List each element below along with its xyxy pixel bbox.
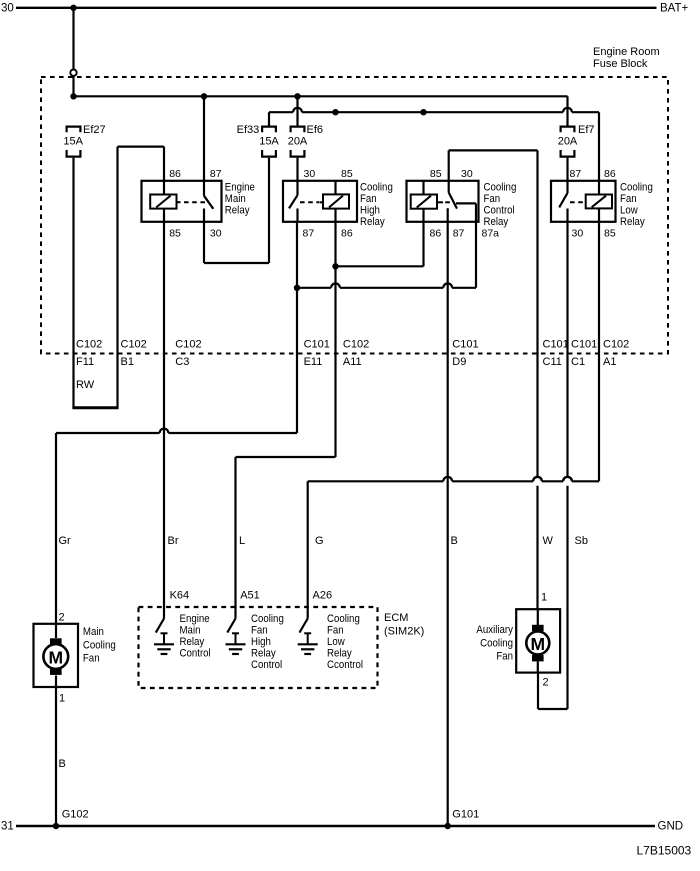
svg-text:Ef6: Ef6 <box>307 124 324 136</box>
wire hop C11 drop over A1 cross wire <box>533 477 542 481</box>
wire bus corner down to fuse Ef7 <box>566 96 568 125</box>
wire aux fan internal bottom <box>537 661 539 672</box>
junction bus to engine main relay 87 <box>201 93 207 99</box>
relay K1 coil wire to pin 86 <box>163 181 165 195</box>
relay K4 switch stub to pin 30 <box>566 209 568 222</box>
wire engine main relay pin 87 feed <box>203 96 205 181</box>
relay K3 contact 87a down to pin <box>475 203 477 221</box>
svg-text:GND: GND <box>658 820 684 832</box>
wire down into engine main relay pin 86 <box>163 147 165 182</box>
relay K3 coil lead <box>437 201 443 203</box>
svg-text:30: 30 <box>304 168 316 180</box>
wire hop 87a tie over D9 wire <box>443 283 452 287</box>
svg-text:87a: 87a <box>482 228 500 240</box>
relay K2 coil wire to pin 85 <box>334 181 336 195</box>
wire secondary bus from Ef33 to relay coils (y=112) <box>269 111 293 113</box>
fuse Ef6 20A <box>291 127 305 133</box>
relay K3 coil wire to pin 86 <box>422 209 424 222</box>
wire fuse Ef6 feed <box>296 96 298 125</box>
wire Ef33 output down <box>268 158 270 263</box>
wire hop secondary bus over Ef7 feed <box>563 108 572 112</box>
ECM driver switch A51 blade <box>227 619 235 633</box>
wire bullet to internal bus <box>72 76 74 96</box>
svg-text:15A: 15A <box>63 136 83 148</box>
svg-text:87: 87 <box>210 168 222 180</box>
relay K1 switch pivot wire from pin 87 <box>203 181 205 196</box>
relay K2 coil lead <box>320 201 324 203</box>
svg-text:85: 85 <box>430 168 442 180</box>
svg-text:BAT+: BAT+ <box>660 3 689 15</box>
wire jog right to C101 C11 drop <box>449 149 538 151</box>
wire hop A1 cross over D9 <box>443 477 452 481</box>
svg-text:85: 85 <box>169 228 181 240</box>
relay K4 switch pivot wire from pin 87 <box>566 181 568 193</box>
svg-text:M: M <box>531 634 546 654</box>
ground symbol at A51 driver <box>232 632 239 634</box>
svg-text:Ef7: Ef7 <box>578 124 595 136</box>
svg-text:CoolingFanHighRelay: CoolingFanHighRelay <box>360 182 393 228</box>
junction bus at Ef27 feed <box>70 93 76 99</box>
wire G down to ECM A26 <box>307 481 309 618</box>
wire internal bus B+ (y=96) <box>74 95 568 97</box>
svg-text:Sb: Sb <box>575 535 588 547</box>
relay K4 coil <box>586 195 612 209</box>
relay K3 Cooling Fan Control Relay box <box>407 181 479 222</box>
relay K2 switch pivot wire from pin 30 <box>296 181 298 195</box>
wire B1 to engine main relay coil 86 <box>118 146 165 148</box>
wire K2 pin 86 down <box>334 222 336 457</box>
wire Ef27 output down to C102 F11 (RW wire) <box>72 158 74 408</box>
wire 87a tie up to K3 pin 87a <box>475 222 477 288</box>
svg-text:1: 1 <box>541 591 547 603</box>
relay K2 coil <box>323 194 349 208</box>
wire A11 corner left <box>236 456 336 458</box>
svg-text:MainCoolingFan: MainCoolingFan <box>83 627 116 665</box>
wire L down to ECM A51 <box>234 457 236 619</box>
svg-text:Br: Br <box>168 535 179 547</box>
relay K1 Engine Main Relay box <box>142 181 222 222</box>
wire Ef33 output jog left <box>204 262 269 264</box>
relay K3 coil wire to pin 85 <box>422 181 424 195</box>
wire battery feed down to fuse block <box>72 8 74 69</box>
svg-text:86: 86 <box>341 228 353 240</box>
node connector bullet at fuse block boundary <box>70 70 76 76</box>
fuse Ef7 20A <box>561 127 575 133</box>
svg-text:C102B1: C102B1 <box>121 339 147 369</box>
ground symbol at K64 driver <box>161 632 168 634</box>
junction top bus to fuse block feed <box>70 5 76 11</box>
relay K2 coil wire to pin 86 <box>334 209 336 222</box>
svg-text:L7B15003: L7B15003 <box>637 844 692 858</box>
svg-text:A51: A51 <box>240 589 260 601</box>
relay K2 Cooling Fan High Relay box <box>283 181 357 222</box>
junction secondary bus to cooling fan control relay coil 85 <box>420 109 426 115</box>
svg-text:30: 30 <box>210 228 222 240</box>
svg-text:AuxiliaryCoolingFan: AuxiliaryCoolingFan <box>476 625 513 663</box>
svg-text:EngineMainRelayControl: EngineMainRelayControl <box>180 614 211 660</box>
wire up to engine main relay pin 30 <box>203 222 205 263</box>
wire K1 pin 85 down through C102 C3 to ECM K64 (Br) <box>163 222 165 619</box>
svg-text:ECM(SIM2K): ECM(SIM2K) <box>384 612 424 638</box>
relay K1 coil lead <box>177 201 181 203</box>
junction bus to fuse Ef6 <box>294 93 300 99</box>
wire RW bottom jog <box>72 406 118 409</box>
svg-text:87: 87 <box>453 228 465 240</box>
relay K4 switch blade <box>559 193 567 207</box>
wire secondary bus corner down to cooling fan low relay coil 86 <box>598 112 600 181</box>
wire BAT+ top bus <box>16 7 657 9</box>
svg-text:Ef27: Ef27 <box>83 124 106 136</box>
relay K2 switch stub to pin 87 <box>296 209 298 222</box>
relay K4 coil wire to pin 85 <box>598 208 600 221</box>
wire Gr down to main cooling fan pin 2 <box>55 433 57 624</box>
ground symbol at A26 driver <box>304 632 311 634</box>
wire up to aux fan pin 2 <box>537 673 539 709</box>
wire E11 corner left toward main fan <box>168 432 297 434</box>
svg-text:M: M <box>49 648 64 668</box>
wire hop A1 cross over C11 <box>533 477 542 481</box>
relay K3 switch stub to pin 87 <box>447 208 449 222</box>
engine room fuse block dashed boundary <box>41 77 668 354</box>
svg-text:30: 30 <box>572 228 584 240</box>
svg-text:A26: A26 <box>313 589 333 601</box>
svg-text:G102: G102 <box>62 808 89 820</box>
relay K4 coil wire to pin 86 <box>598 181 600 195</box>
svg-text:20A: 20A <box>288 136 308 148</box>
relay K2 dashed link <box>300 201 319 203</box>
svg-text:EngineMainRelay: EngineMainRelay <box>225 182 255 217</box>
ECM driver switch A26 blade <box>300 619 308 633</box>
wire K3 pin 86 down to tie corner <box>422 222 424 266</box>
relay K3 coil <box>411 195 437 209</box>
svg-text:B: B <box>59 758 66 770</box>
svg-text:L: L <box>239 535 245 547</box>
relay K1 switch blade <box>204 196 213 209</box>
wire hop secondary bus over Ef6 feed <box>293 108 302 112</box>
wire E11 down through connector <box>296 288 298 433</box>
svg-text:2: 2 <box>543 676 549 688</box>
svg-text:31: 31 <box>1 820 14 832</box>
junction G102 <box>53 823 59 829</box>
wire K4 pin 85 down through C102 A1 <box>598 222 600 482</box>
svg-text:C102F11: C102F11 <box>76 339 102 369</box>
relay K3 contact 87a horizontal <box>456 202 476 204</box>
fuse Ef33 15A <box>262 127 276 133</box>
relay K4 dashed link <box>570 201 584 203</box>
fuse Ef27 15A <box>67 127 81 133</box>
svg-text:C102C3: C102C3 <box>175 339 201 369</box>
wire main fan internal bottom <box>55 676 57 688</box>
svg-text:K64: K64 <box>170 589 190 601</box>
svg-text:B: B <box>451 535 458 547</box>
wire K4 pin 30 down through C101 C1 <box>566 222 568 477</box>
wire ground bus GND <box>16 825 655 827</box>
svg-text:RW: RW <box>76 379 95 391</box>
svg-text:1: 1 <box>59 692 65 704</box>
wire hop E11 cross over Br wire <box>160 429 169 433</box>
svg-text:C101D9: C101D9 <box>452 339 478 369</box>
relay K1 switch stub to pin 30 <box>203 209 205 222</box>
svg-text:CoolingFanLowRelayCcontrol: CoolingFanLowRelayCcontrol <box>327 614 363 672</box>
wire hop A1 cross over C1 <box>563 477 572 481</box>
wire 87a tie line from E11 junction <box>297 287 331 289</box>
motor M2 Auxiliary Cooling Fan <box>516 609 560 672</box>
wire A1 cross line to ECM A26 <box>572 480 599 482</box>
wire B main fan to ground bus <box>55 687 57 826</box>
svg-text:85: 85 <box>604 228 616 240</box>
wire secondary bus corner down to fuse Ef33 <box>268 112 270 125</box>
wire hop 87a tie over A11 wire <box>331 283 340 287</box>
relay K3 switch blade <box>449 193 457 209</box>
wire hop C1 over A1 cross wire <box>563 477 572 481</box>
svg-text:Engine RoomFuse Block: Engine RoomFuse Block <box>593 46 660 70</box>
wire Ef6 output to cooling fan high relay pin 30 <box>296 158 298 182</box>
junction coil-86 tie at A11 wire <box>332 263 338 269</box>
svg-text:2: 2 <box>59 611 65 623</box>
svg-text:W: W <box>543 535 554 547</box>
ECM driver switch K64 blade <box>156 619 164 633</box>
junction cooling fan feed E11 with 87a tie line <box>294 285 300 291</box>
motor M1 Main Cooling Fan <box>34 624 79 687</box>
relay K3 switch pivot wire from pin 30 <box>448 181 450 193</box>
wire coil 86 tie line to K3 pin 86 <box>336 265 424 267</box>
svg-text:C101C1: C101C1 <box>571 339 597 369</box>
relay K4 Cooling Fan Low Relay box <box>551 181 616 222</box>
wire aux fan internal top <box>537 609 539 625</box>
wire main fan internal top <box>55 624 57 638</box>
svg-text:86: 86 <box>169 168 181 180</box>
svg-text:87: 87 <box>303 228 315 240</box>
svg-text:CoolingFanLowRelay: CoolingFanLowRelay <box>620 182 653 228</box>
svg-text:CoolingFanControlRelay: CoolingFanControlRelay <box>484 182 517 228</box>
svg-text:86: 86 <box>604 168 616 180</box>
relay K1 coil wire to pin 85 <box>163 209 165 222</box>
wire Ef7 output to cooling fan low relay pin 87 <box>566 158 568 182</box>
wire K3 pin 87 down through C101 D9 to ground bus <box>447 222 449 826</box>
wire K2 pin 87 down to junction <box>296 222 298 288</box>
relay K2 switch blade <box>289 195 298 208</box>
relay K1 coil <box>150 195 176 209</box>
junction secondary bus to cooling fan high relay coil 85 <box>332 109 338 115</box>
svg-text:G101: G101 <box>452 808 479 820</box>
ECM SIM2K dashed box <box>139 607 378 688</box>
svg-text:G: G <box>315 535 324 547</box>
svg-text:87: 87 <box>570 168 582 180</box>
svg-text:C101C11: C101C11 <box>543 339 569 369</box>
relay K3 dashed link <box>445 201 450 203</box>
svg-text:20A: 20A <box>558 136 578 148</box>
svg-text:CoolingFanHighRelayControl: CoolingFanHighRelayControl <box>251 614 284 672</box>
svg-text:Gr: Gr <box>59 535 72 547</box>
svg-text:86: 86 <box>430 228 442 240</box>
svg-text:Ef33: Ef33 <box>237 124 260 136</box>
wire RW up through C102 B1 <box>116 147 118 408</box>
svg-text:85: 85 <box>341 168 353 180</box>
wire aux fan pin 2 bottom jog <box>538 708 568 710</box>
relay K1 dashed link <box>184 201 205 203</box>
wire K3 pin 30 up jog <box>448 150 450 180</box>
junction G101 <box>445 823 451 829</box>
svg-text:30: 30 <box>1 3 14 15</box>
wire C11 drop down to connector <box>536 150 538 477</box>
svg-text:30: 30 <box>461 168 473 180</box>
svg-text:15A: 15A <box>259 136 279 148</box>
